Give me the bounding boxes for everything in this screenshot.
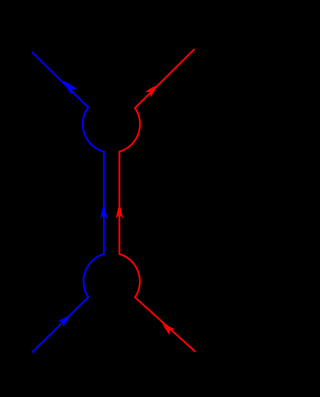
- blue particle line: incoming top-left diagonal, top loop left arc, central vertical, bottom loop left arc, outgoing bottom-left diagonal: [32, 52, 104, 353]
- arrow on red central vertical (pointing up): [116, 205, 123, 219]
- arrow on blue bottom-left diagonal (pointing up-right toward vertex): [58, 312, 73, 327]
- red particle line: incoming top-right diagonal, top loop right arc, central vertical, bottom loop right arc, outgoing bottom-right diagonal: [119, 49, 195, 352]
- arrow on red top-right diagonal (pointing up-right): [145, 82, 160, 97]
- arrow on red bottom-right diagonal (pointing up-left toward vertex): [160, 321, 175, 336]
- arrow on blue top-left diagonal (pointing up-left): [60, 78, 77, 95]
- arrow on blue central vertical (pointing up): [100, 205, 107, 219]
